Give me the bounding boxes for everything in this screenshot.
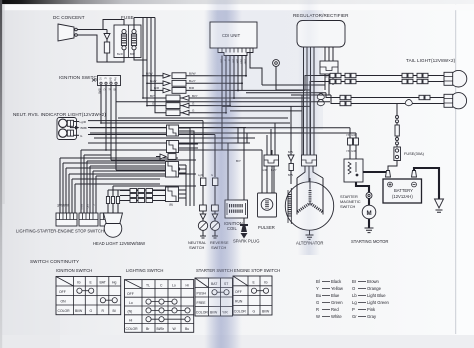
ignition switch SW1 — [98, 76, 121, 86]
svg-text:IG: IG — [99, 78, 103, 81]
regulator left pin wires — [304, 47, 315, 155]
reverse chain connector — [211, 173, 218, 205]
switch connector block 2 — [79, 213, 98, 226]
switch block C — [166, 162, 179, 178]
connector pair on tail wire 1 — [330, 73, 428, 77]
svg-text:Hi: Hi — [186, 283, 189, 287]
bold wire switch to battery — [363, 172, 388, 177]
wire headlight drops — [108, 186, 196, 213]
wire bus upper — [88, 68, 330, 135]
headlight housing — [104, 213, 123, 224]
svg-text:Bl/W: Bl/W — [189, 72, 196, 76]
svg-text:Lg/R: Lg/R — [198, 173, 204, 177]
CDI connector comb — [218, 48, 253, 56]
switch connector block 3 — [100, 213, 110, 226]
regulator connector out wires — [325, 74, 333, 95]
svg-text:COLOR: COLOR — [58, 309, 71, 313]
CDI unit U1 — [210, 22, 257, 48]
svg-text:IG: IG — [264, 280, 268, 284]
svg-text:Y/R: Y/R — [86, 204, 90, 208]
headlight bullet connectors — [106, 197, 119, 204]
top dark scan bar — [0, 0, 474, 4]
svg-text:TAIL LIGHT(12V8W×2): TAIL LIGHT(12V8W×2) — [406, 58, 456, 63]
svg-text:Bl/Br: Bl/Br — [81, 126, 88, 130]
lighting switch table — [125, 280, 194, 333]
svg-text:NEUT. RVS. INDICATOR LIGHT(12V: NEUT. RVS. INDICATOR LIGHT(12V3W×2) — [13, 112, 106, 117]
starter switch table — [195, 278, 233, 316]
svg-text:Bl/W: Bl/W — [146, 72, 153, 76]
lavender wash right of fold — [228, 0, 323, 130]
pulser PU1 — [258, 193, 277, 217]
ignition key symbol — [92, 79, 98, 82]
fuse F1 — [121, 29, 126, 57]
wires out of blocks right — [179, 128, 199, 206]
svg-text:Bu/Y: Bu/Y — [150, 79, 157, 83]
bottom left shade — [0, 300, 60, 348]
svg-text:BAT: BAT — [100, 281, 106, 285]
alternator ground — [306, 230, 314, 239]
heart connector 1 — [317, 93, 430, 99]
switch block A — [167, 125, 179, 136]
svg-text:Bl/Y: Bl/Y — [150, 94, 156, 98]
svg-text:PUSH: PUSH — [197, 292, 207, 296]
regulator right pin wires — [325, 47, 333, 61]
svg-text:Bu: Bu — [185, 327, 189, 331]
svg-text:W: W — [316, 314, 320, 319]
svg-text:Gr: Gr — [352, 314, 357, 319]
reverse bullet — [212, 205, 219, 220]
motor terminal — [366, 193, 372, 206]
right page edge line — [455, 0, 456, 334]
svg-text:Bl/Br: Bl/Br — [157, 327, 165, 331]
wire bus mid — [222, 85, 331, 155]
svg-text:Bl/W: Bl/W — [262, 309, 270, 313]
bold wire switch to motor — [356, 182, 369, 192]
svg-text:SWITCH: SWITCH — [340, 204, 356, 209]
svg-text:R: R — [316, 307, 319, 312]
svg-text:Bl/W: Bl/W — [80, 204, 84, 210]
connector row 4 — [143, 94, 235, 101]
wire to pulser — [267, 166, 274, 193]
svg-text:Pink: Pink — [367, 307, 376, 312]
DC outlet socket — [58, 24, 77, 41]
svg-text:Gray: Gray — [367, 314, 377, 319]
svg-text:Lo: Lo — [129, 301, 133, 305]
svg-text:HEAD LIGHT 12V60W/55W: HEAD LIGHT 12V60W/55W — [93, 241, 145, 246]
tail light bulb 2 — [444, 93, 467, 109]
ignition coil T1 — [225, 200, 248, 218]
connector pair on tail wire 2 — [330, 79, 428, 83]
svg-text:Light Green: Light Green — [367, 300, 390, 305]
right white margin — [457, 0, 474, 348]
svg-text:Y/R G/R: Y/R G/R — [346, 133, 356, 137]
indicator bulb 1 — [59, 119, 79, 127]
scan fold tint overlay — [206, 0, 240, 348]
wires into alternator — [297, 166, 323, 188]
svg-text:LIGHTING SWITCH: LIGHTING SWITCH — [126, 268, 163, 273]
connector row 1 — [143, 72, 247, 79]
wires into connector grid — [120, 191, 166, 201]
wire long horizontals — [90, 118, 356, 170]
svg-text:Bu: Bu — [316, 293, 322, 298]
svg-text:Lg/R: Lg/R — [80, 120, 87, 124]
switch block B — [167, 141, 179, 153]
svg-text:IG: IG — [77, 281, 81, 285]
svg-text:Hg: Hg — [114, 78, 118, 82]
bottom light strip — [0, 335, 474, 348]
spark plug P1 — [240, 218, 248, 239]
alternator connector block — [302, 155, 317, 166]
svg-text:COLOR: COLOR — [126, 327, 139, 331]
svg-text:G: G — [92, 204, 96, 206]
ground right — [435, 199, 444, 212]
connector row 5 — [147, 101, 231, 108]
svg-text:B/R: B/R — [189, 86, 195, 90]
svg-text:B/R: B/R — [154, 86, 160, 90]
svg-text:G: G — [103, 89, 107, 91]
tail light wires lower — [326, 93, 445, 104]
svg-text:Y/R G/R: Y/R G/R — [346, 149, 356, 153]
starter sw connectors — [348, 128, 359, 159]
neutral switch — [198, 220, 207, 239]
indicator housing — [57, 118, 77, 140]
starting motor M1 — [362, 205, 376, 219]
pulser connector block — [264, 155, 279, 166]
svg-text:M: M — [367, 210, 372, 217]
battery terminal caps — [386, 171, 417, 178]
wire from socket to fuse — [77, 20, 124, 63]
svg-text:PULSER: PULSER — [258, 225, 275, 230]
svg-text:ENGINE STOP SWITCH: ENGINE STOP SWITCH — [234, 268, 280, 273]
svg-text:Yellow: Yellow — [331, 286, 344, 291]
engine stop switch table — [233, 276, 272, 315]
svg-text:SWITCH CONTINUITY: SWITCH CONTINUITY — [30, 259, 79, 264]
svg-text:Brown: Brown — [367, 279, 380, 284]
svg-text:OFF: OFF — [127, 292, 134, 296]
svg-text:Hi: Hi — [129, 318, 132, 322]
svg-text:G: G — [253, 309, 256, 313]
svg-text:Red: Red — [331, 307, 339, 312]
svg-text:Bl/W: Bl/W — [98, 89, 102, 95]
CDI pin wires — [222, 53, 262, 151]
svg-text:Y: Y — [316, 286, 319, 291]
bold wire battery minus to ground — [414, 168, 439, 199]
second band tint overlay — [298, 0, 320, 255]
regulator/rectifier box — [297, 21, 345, 48]
svg-text:Lo: Lo — [172, 283, 176, 287]
reverse switch — [210, 220, 219, 239]
svg-text:Br: Br — [352, 279, 357, 284]
svg-text:(B): (B) — [169, 203, 173, 207]
svg-text:Bl/R: Bl/R — [130, 52, 135, 56]
svg-text:P: P — [352, 307, 355, 312]
svg-text:Black: Black — [331, 279, 342, 284]
svg-text:E: E — [104, 78, 108, 80]
motor ground — [365, 219, 374, 233]
legend column 1 — [316, 279, 344, 319]
legend column 2 — [352, 279, 390, 319]
svg-text:SWITCH: SWITCH — [189, 245, 205, 250]
svg-text:BATTERY: BATTERY — [394, 188, 413, 193]
starter magnetic switch SW2 — [344, 159, 363, 182]
svg-text:Bu/Y: Bu/Y — [189, 79, 196, 83]
svg-text:Lb: Lb — [352, 293, 357, 298]
svg-text:Green: Green — [331, 300, 343, 305]
svg-text:ON: ON — [61, 300, 67, 304]
wire bends to switch blocks — [60, 150, 165, 213]
scan fold blue band lower — [204, 140, 242, 348]
diode D1 — [104, 30, 110, 43]
CDI pin labels — [220, 59, 248, 65]
left dark scan edge — [0, 0, 2, 348]
wire fuse top bus — [134, 18, 165, 113]
wire lower left bus — [60, 138, 255, 184]
fuse F2 — [131, 25, 147, 60]
svg-text:FUSE(30A): FUSE(30A) — [404, 151, 425, 156]
white strip under top bar — [0, 4, 474, 10]
switch block D — [166, 187, 179, 202]
connector row 3 — [151, 86, 239, 93]
ignition switch pin wires — [101, 86, 116, 171]
connector row 6 — [165, 109, 227, 116]
headlight bulb — [104, 220, 122, 238]
battery BT1 — [383, 179, 422, 203]
svg-text:STARTING MOTOR: STARTING MOTOR — [351, 239, 388, 244]
svg-text:Hg: Hg — [112, 281, 116, 285]
neutral chain connector — [201, 178, 206, 205]
svg-text:Bl: Bl — [316, 279, 320, 284]
resistor R1 — [104, 42, 109, 62]
svg-text:G: G — [316, 300, 319, 305]
neutral bullet — [200, 205, 207, 220]
tail light bulb 1 — [444, 70, 467, 87]
svg-text:(12V12AH): (12V12AH) — [392, 194, 413, 199]
svg-text:TL: TL — [146, 283, 150, 287]
junction dots — [100, 75, 152, 151]
connector grid left of block D — [130, 189, 153, 203]
scan fold blue band upper — [204, 0, 242, 140]
svg-text:FUSE: FUSE — [121, 15, 134, 20]
svg-text:Bl: Bl — [113, 89, 117, 92]
pin labels above blocks — [57, 204, 96, 210]
fuse 30A chain — [388, 104, 401, 172]
heart connector 2 — [317, 99, 412, 105]
svg-text:R: R — [325, 76, 329, 78]
svg-text:G/R: G/R — [262, 168, 267, 172]
svg-text:Orange: Orange — [367, 286, 382, 291]
svg-text:Bl/W: Bl/W — [75, 309, 83, 313]
svg-text:Light Blue: Light Blue — [367, 293, 386, 298]
diode D2 — [156, 154, 176, 160]
middle junction arrow — [70, 126, 79, 130]
grommet — [273, 60, 280, 90]
connector row 2 — [147, 79, 243, 86]
svg-text:FREE: FREE — [197, 301, 207, 305]
svg-text:OFF: OFF — [59, 290, 66, 294]
svg-text:Bl: Bl — [113, 309, 116, 313]
tail light wires upper — [305, 76, 445, 91]
B/W drop chain — [288, 150, 294, 184]
svg-text:G: G — [90, 309, 93, 313]
svg-text:Blue: Blue — [331, 293, 340, 298]
switch connector block 1 — [56, 213, 77, 226]
svg-text:(N): (N) — [128, 310, 133, 314]
ignition switch table — [56, 277, 121, 315]
alternator G1 — [285, 178, 333, 230]
svg-text:DC CONCENT: DC CONCENT — [53, 15, 85, 20]
left gray column — [2, 4, 5, 204]
wire right drops — [203, 121, 275, 200]
svg-text:R: R — [108, 89, 112, 91]
svg-text:IGNITION SWITCH: IGNITION SWITCH — [56, 268, 92, 273]
svg-text:Lg: Lg — [352, 300, 357, 305]
svg-text:LIGHTING-STARTER-ENGINE STOP S: LIGHTING-STARTER-ENGINE STOP SWITCH — [16, 229, 104, 234]
fuse block housing — [114, 25, 141, 58]
svg-text:Bu/R: Bu/R — [117, 52, 123, 56]
indicator bulb 2 — [59, 129, 79, 137]
second faint band — [298, 0, 320, 255]
svg-text:White: White — [331, 314, 342, 319]
svg-text:Bl/Y: Bl/Y — [192, 94, 198, 98]
regulator connector block — [320, 61, 338, 74]
